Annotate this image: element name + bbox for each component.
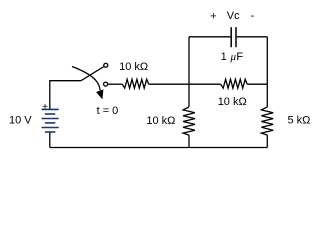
svg-text:10 kΩ: 10 kΩ [218,96,247,108]
svg-text:10 kΩ: 10 kΩ [119,61,148,73]
wire cap loop top right [237,36,267,38]
capacitor C1 plates [231,27,236,47]
svg-text:t = 0: t = 0 [97,105,119,117]
battery V1 plates [42,109,59,132]
wire R3 bottom stub [188,135,190,147]
wire R2 to node B [247,83,267,85]
svg-text:10 kΩ: 10 kΩ [146,115,175,127]
wire battery top to switch pivot [50,81,81,110]
svg-text:-: - [251,10,255,22]
resistor R4 5 kOhm vertical [261,107,273,135]
switch top contact circle [104,63,108,67]
svg-text:+: + [42,102,48,113]
resistor R3 10 kOhm vertical [183,107,195,135]
svg-text:1 μF: 1 μF [221,51,244,63]
resistor R1 10 kOhm horizontal [122,79,149,88]
wire R4 bottom stub [266,135,268,147]
svg-text:5 kΩ: 5 kΩ [288,115,311,127]
wire battery bottom stub [49,132,51,148]
svg-text:10 V: 10 V [9,114,32,126]
node A vertical wire (cap loop left + lead) [188,37,190,107]
svg-text:Vc: Vc [227,10,240,22]
svg-text:+: + [210,10,216,22]
wire cap loop right vertical [266,37,268,107]
wire R1 to node A [149,83,189,85]
wire switch to R1 [108,83,123,85]
switch bottom contact circle [104,82,108,86]
switch arrow (t=0 closing arc) [72,67,100,91]
switch SW1 blade [81,67,104,81]
wire cap loop top left [189,36,230,38]
wire node A to R2 [189,83,221,85]
bottom wire [50,147,267,149]
resistor R2 10 kOhm horizontal [221,79,248,88]
